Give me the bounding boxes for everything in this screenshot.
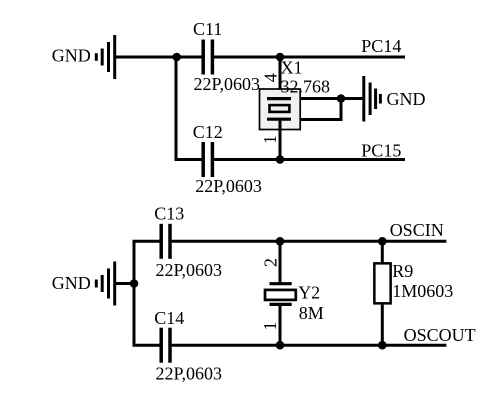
wire left column vertical (133, 241, 136, 345)
wire R9 top lead (381, 241, 384, 263)
svg-text:GND: GND (52, 45, 91, 65)
wire X1 case bottom to right (300, 118, 341, 121)
resistor R9 body (374, 263, 390, 303)
node junction at (176,56) (172, 53, 181, 62)
svg-text:Y2: Y2 (298, 283, 320, 303)
node junction at (341,98.5) (337, 94, 346, 103)
wire OSCOUT rail left segment (133, 344, 160, 347)
crystal X1 body box (260, 89, 301, 130)
crystal Y2 rectangle (265, 290, 296, 300)
svg-text:1: 1 (260, 322, 280, 331)
wire OSCIN rail left segment (133, 240, 160, 243)
wire X1 bottom plate down to PC15 rail (279, 119, 282, 159)
wire left branch down from junction to C12 row (175, 57, 178, 160)
svg-text:OSCIN: OSCIN (390, 220, 444, 240)
wire OSCOUT rail right segment (172, 344, 447, 347)
svg-text:8M: 8M (299, 303, 324, 323)
wire C11 right plate to PC14 rail end (214, 56, 405, 59)
svg-text:PC15: PC15 (361, 140, 401, 160)
svg-text:C14: C14 (154, 308, 184, 328)
wire OSCIN rail right segment (172, 240, 447, 243)
ground bottom-left symbol (96, 262, 114, 306)
crystal X1 bottom plate (267, 118, 291, 121)
crystal X1 inner rectangle (270, 105, 290, 112)
svg-text:GND: GND (387, 89, 426, 109)
node junction at (280,241.5) (276, 237, 285, 246)
crystal Y2 top plate (270, 282, 292, 285)
node junction at (280,56) (276, 53, 285, 62)
svg-text:22P,0603: 22P,0603 (195, 176, 262, 196)
crystal Y2 bottom plate (270, 303, 292, 306)
svg-text:32.768: 32.768 (281, 76, 331, 96)
wire junction down to X1 pin 4 (279, 57, 282, 99)
svg-text:PC14: PC14 (361, 36, 401, 56)
svg-text:GND: GND (52, 273, 91, 293)
svg-text:C12: C12 (193, 122, 223, 142)
capacitor C12 plates (203, 142, 212, 177)
wire C12 row left segment (175, 158, 202, 161)
node junction at (134,283.5) (130, 279, 139, 288)
svg-text:OSCOUT: OSCOUT (404, 325, 476, 345)
crystal X1 top plate (267, 97, 291, 100)
svg-text:X1: X1 (281, 58, 303, 78)
ground top-left symbol (96, 35, 114, 79)
wire ground to left column (116, 282, 134, 285)
svg-text:1M0603: 1M0603 (392, 281, 453, 301)
wire Y2 bottom pin (279, 304, 282, 345)
node junction at (280,158.5) (276, 155, 285, 164)
svg-text:22P,0603: 22P,0603 (194, 74, 261, 94)
wire Y2 top pin (279, 241, 282, 284)
wire X1 case top to right (300, 97, 341, 100)
wire R9 bottom lead (381, 305, 384, 346)
svg-text:4: 4 (260, 73, 280, 82)
svg-text:2: 2 (260, 258, 280, 267)
capacitor C11 plates (203, 40, 212, 75)
wire GND to C11 left plate (116, 56, 202, 59)
svg-text:22P,0603: 22P,0603 (156, 260, 223, 280)
wire vertical joining case wires (340, 99, 343, 122)
node junction at (280,345) (276, 341, 285, 350)
node junction at (382.5,345) (378, 341, 387, 350)
svg-text:22P,0603: 22P,0603 (156, 364, 223, 384)
capacitor C13 plates (161, 224, 170, 259)
svg-text:C11: C11 (193, 19, 222, 39)
wire junction to right ground (341, 97, 363, 100)
svg-text:R9: R9 (392, 261, 413, 281)
wire C12 right plate to PC15 rail end (214, 158, 405, 161)
capacitor C14 plates (161, 328, 170, 363)
node junction at (382.5,241.5) (378, 237, 387, 246)
svg-text:C13: C13 (154, 204, 184, 224)
svg-text:1: 1 (260, 135, 280, 144)
ground top-right symbol (364, 76, 381, 122)
